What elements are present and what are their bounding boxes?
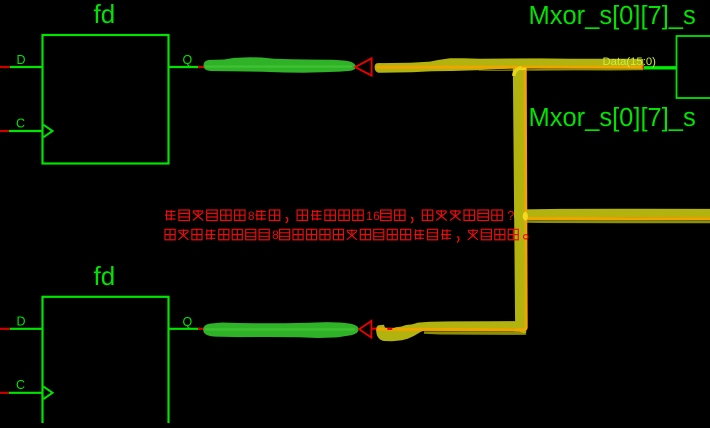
U2 pin C input wire (green) bbox=[9, 392, 42, 394]
brighter marker overlap at middle junction bbox=[523, 212, 528, 221]
wire: 8-bit net from U1.Q highlighted with green marker bbox=[203, 57, 356, 73]
bus: darker marker strip under top bus core bbox=[478, 69, 644, 71]
bus tap triangle (bottom, red) bbox=[359, 321, 371, 338]
svg-text:Data(15:0): Data(15:0) bbox=[603, 56, 657, 68]
U1 clock input triangle marker bbox=[44, 125, 53, 137]
U2 pin D input wire (red unconnected stub) bbox=[0, 328, 11, 330]
svg-text:8: 8 bbox=[248, 209, 255, 223]
svg-text:D: D bbox=[17, 315, 26, 329]
module M1 pin Data(15:0) green stub bbox=[644, 66, 677, 69]
U1 pin D input wire (red unconnected stub) bbox=[0, 66, 11, 68]
module M1 body (partially off-screen) bbox=[677, 36, 710, 98]
svg-text:1: 1 bbox=[366, 209, 373, 223]
U2 clock input triangle marker bbox=[44, 387, 53, 399]
bus: middle horizontal output bus yellow marker band bbox=[514, 209, 710, 218]
red net patch visible through marker bbox=[387, 328, 392, 330]
bus: darker marker strip under middle bus core bbox=[527, 220, 710, 223]
red joint tick at bus end bbox=[643, 66, 647, 68]
svg-text:Mxor_s[0][7]_s: Mxor_s[0][7]_s bbox=[529, 2, 696, 30]
svg-text:C: C bbox=[16, 116, 25, 130]
bus: middle output net core line bbox=[525, 217, 710, 220]
bus: darker marker strip under lower bus core bbox=[424, 331, 527, 335]
bus: lower horizontal 16-bit bus yellow marker band bbox=[376, 321, 526, 341]
flip-flop U1 (fd) symbol body bbox=[43, 35, 169, 164]
svg-text:Q: Q bbox=[183, 53, 193, 67]
annotation text line 2 (red chinese) bbox=[165, 228, 528, 242]
wire: bright green core line under top marker blob bbox=[205, 65, 352, 67]
annotation text line 1 (red chinese) bbox=[165, 209, 514, 223]
svg-text:Mxor_s[0][7]_s: Mxor_s[0][7]_s bbox=[529, 104, 696, 132]
svg-text:fd: fd bbox=[94, 261, 116, 291]
U2 pin Q red net stub bbox=[198, 328, 206, 330]
svg-text:C: C bbox=[16, 378, 25, 392]
bus tap triangle (top, red) bbox=[355, 58, 371, 75]
U2 pin D input wire (green) bbox=[10, 328, 42, 330]
svg-text:D: D bbox=[17, 53, 26, 67]
bus: top horizontal net core line Data(15:0) bbox=[377, 66, 645, 69]
svg-text:?: ? bbox=[507, 209, 514, 223]
wire: 8-bit net from U2.Q highlighted with green marker bbox=[203, 322, 358, 338]
U1 pin Q red net stub bbox=[198, 66, 206, 68]
svg-text:fd: fd bbox=[94, 0, 116, 29]
flip-flop U2 (fd) symbol body bbox=[43, 297, 169, 426]
U2 pin C input wire (red unconnected stub) bbox=[0, 392, 10, 394]
brighter marker overlap at top T junction bbox=[519, 68, 527, 71]
U1 pin C input wire (green) bbox=[9, 130, 42, 132]
svg-text:Q: Q bbox=[183, 315, 193, 329]
svg-text:6: 6 bbox=[373, 209, 380, 223]
wire: bright green core line under bottom marker blob bbox=[205, 328, 355, 330]
bus: vertical net core line with corner into lower horizontal core bbox=[376, 67, 526, 330]
bus: top horizontal 16-bit bus yellow marker band bbox=[375, 58, 644, 73]
U2 pin Q output wire (green) bbox=[169, 328, 201, 330]
red net segment after bottom triangle bbox=[371, 328, 377, 330]
U1 pin C input wire (red unconnected stub) bbox=[0, 130, 10, 132]
bus: vertical 16-bit bus yellow marker band bbox=[513, 63, 526, 334]
U1 pin D input wire (green) bbox=[10, 66, 42, 68]
svg-text:8: 8 bbox=[272, 228, 279, 242]
U1 pin Q output wire (green) bbox=[169, 66, 201, 68]
